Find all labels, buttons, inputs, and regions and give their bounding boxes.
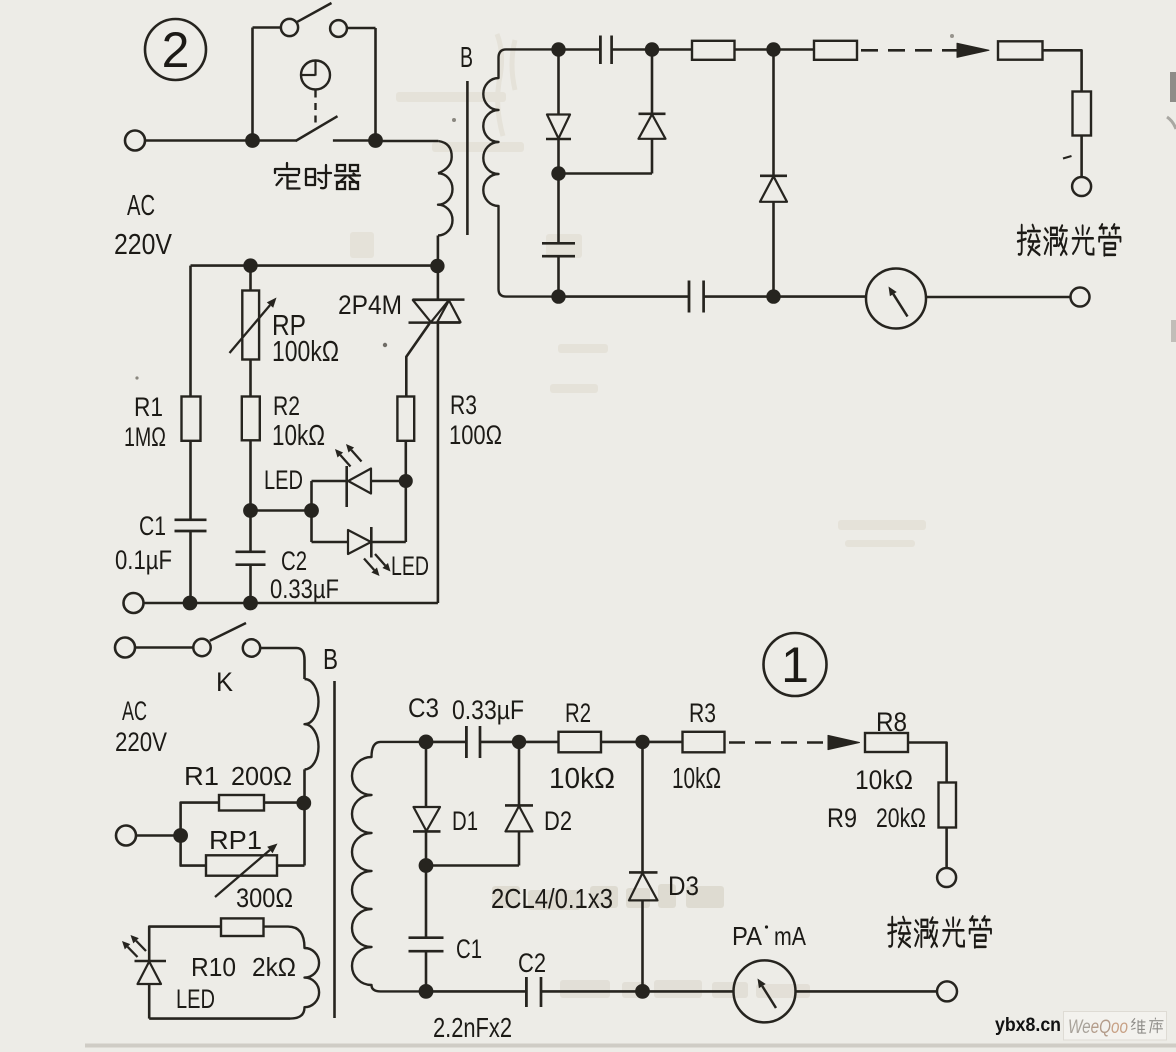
wire (945, 828, 948, 869)
wire (primary lower lead) (303, 769, 306, 865)
svg-text:220V: 220V (114, 229, 173, 261)
diode D3 (629, 749, 658, 991)
svg-text:0.33µF: 0.33µF (452, 695, 524, 725)
resistor R2 (10k) (242, 360, 260, 511)
switch K blade (210, 623, 246, 641)
switch K contact (193, 639, 210, 656)
triac 2P4M (409, 266, 465, 323)
ballast resistor (vertical) (1073, 92, 1092, 136)
bottom rail wire (fig2) (144, 602, 438, 605)
AC input terminal (fig1 lower) (116, 826, 136, 846)
resistor R3 (100) (397, 397, 414, 475)
wire (347, 27, 376, 30)
bottom rail wire (559, 295, 690, 298)
figure marker 1 (764, 633, 827, 696)
LED2 light arrows (364, 554, 391, 576)
timer switch contact (281, 19, 298, 36)
svg-text:2: 2 (162, 22, 190, 78)
potentiometer RP (100k) (230, 266, 277, 360)
resistor R1 (1M) (182, 266, 201, 520)
wire (251, 509, 312, 512)
resistor R9 20k (vertical) (939, 783, 957, 828)
switch K contact (243, 639, 260, 656)
svg-text:R9: R9 (827, 803, 857, 833)
capacitor C2 (236, 511, 266, 604)
junction (183, 596, 198, 611)
wire (1043, 50, 1082, 91)
watermark WeeQoo box (1064, 1012, 1167, 1041)
dashed wire (729, 741, 823, 744)
wire (triac main to bottom rail) (437, 323, 440, 603)
svg-text:10kΩ: 10kΩ (272, 420, 325, 452)
wire (908, 743, 947, 783)
wire (735, 48, 815, 51)
svg-text:PA: PA (732, 921, 763, 951)
diode (secondary rectifier B) (639, 56, 666, 174)
wire (519, 741, 559, 744)
AC input terminal (upper left) (125, 131, 145, 151)
svg-text:2.2nFx2: 2.2nFx2 (433, 1012, 512, 1043)
capacitor (top coupling) (600, 36, 611, 65)
transformer B secondary winding (fig1) (352, 742, 426, 992)
stray mark (1063, 156, 1072, 159)
label 接激光管 (upper) (1018, 224, 1121, 255)
svg-text:R10: R10 (191, 952, 236, 982)
svg-text:220V: 220V (115, 727, 167, 757)
meter (upper, laser current) (866, 269, 926, 329)
wire (253, 26, 281, 29)
LED 3 (pilot) (135, 961, 167, 1019)
junction (243, 596, 258, 611)
resistor R8 10k (865, 733, 908, 752)
wire (1080, 136, 1083, 178)
label 定时器 (275, 163, 360, 189)
capacitor (filter, upper) (542, 174, 575, 297)
wire (643, 741, 683, 744)
svg-text:R3: R3 (689, 698, 716, 728)
transformer B secondary winding (483, 49, 560, 296)
arrowhead (828, 735, 860, 749)
svg-text:R8: R8 (876, 707, 907, 737)
LED3 light arrows (122, 935, 146, 957)
junction (triac anode node) (430, 259, 444, 273)
dashed wire (861, 49, 957, 52)
junction (tap) (296, 796, 311, 811)
transformer B primary winding (438, 141, 453, 236)
svg-text:AC: AC (122, 696, 147, 726)
AC terminal (lower left of fig2) (124, 593, 144, 613)
svg-text:20kΩ: 20kΩ (876, 803, 926, 833)
svg-text:2kΩ: 2kΩ (252, 952, 296, 982)
resistor (top chain 2) (814, 41, 857, 60)
wire (149, 1017, 290, 1020)
junction (635, 735, 649, 749)
svg-text:R2: R2 (273, 391, 300, 421)
dashed mechanical link (314, 91, 316, 129)
wire (643, 990, 734, 993)
svg-text:0.1µF: 0.1µF (115, 545, 172, 575)
paper ghosts (not labelled components) (497, 34, 515, 136)
wire (374, 28, 377, 141)
watermark 维库 glyphs (1131, 1018, 1163, 1034)
svg-text:C1: C1 (139, 511, 166, 541)
resistor (top chain 1) (692, 41, 735, 60)
junction (304, 503, 319, 518)
junction (245, 133, 260, 148)
junction (551, 42, 565, 56)
wire (437, 236, 440, 267)
junction (419, 984, 434, 999)
svg-text:D3: D3 (668, 871, 699, 901)
svg-text:LED: LED (264, 465, 303, 495)
LED 1 (upper, points left) (312, 466, 400, 507)
svg-text:mA: mA (774, 921, 807, 951)
laser tube terminal (top -) (1071, 288, 1090, 307)
diode D2 (433, 749, 533, 866)
svg-text:2CL4/0.1x3: 2CL4/0.1x3 (491, 883, 613, 914)
junction (173, 828, 188, 843)
svg-text:10kΩ: 10kΩ (672, 763, 721, 795)
resistor (top chain 3) (998, 41, 1043, 59)
svg-text:B: B (460, 42, 473, 74)
svg-text:R1: R1 (134, 392, 163, 422)
svg-text:K: K (216, 667, 233, 697)
svg-text:100Ω: 100Ω (449, 420, 502, 450)
wire (333, 139, 376, 142)
wire (251, 28, 254, 141)
triac gate lead (406, 324, 429, 397)
svg-text:R3: R3 (450, 390, 477, 420)
capacitor C1 (fig1) (409, 866, 444, 992)
svg-text:2P4M: 2P4M (338, 290, 402, 320)
timer clock symbol (301, 61, 330, 90)
meter PA mA (734, 960, 796, 1022)
junction (551, 166, 565, 180)
svg-text:300Ω: 300Ω (236, 883, 293, 913)
svg-text:R1: R1 (184, 761, 219, 791)
svg-text:R2: R2 (565, 698, 591, 728)
wire (135, 646, 193, 649)
svg-text:WeeQoo: WeeQoo (1068, 1017, 1128, 1038)
svg-text:B: B (323, 644, 338, 676)
pilot lamp winding (264, 927, 320, 1019)
junction (766, 289, 780, 303)
wire (796, 990, 938, 993)
svg-text:200Ω: 200Ω (231, 761, 292, 791)
LED1 light arrows (335, 444, 362, 467)
resistor R10 2k (149, 918, 263, 961)
junction (645, 42, 659, 56)
junction (243, 503, 258, 518)
svg-text:D1: D1 (452, 806, 478, 836)
laser tube terminal (top +) (1072, 177, 1091, 196)
timer switch blade (297, 3, 331, 22)
junction (512, 735, 526, 749)
svg-text:C2: C2 (518, 948, 546, 978)
svg-text:1: 1 (781, 637, 809, 693)
capacitor C2 (fig1) (526, 977, 541, 1007)
diode (secondary rectifier A) (546, 56, 571, 167)
resistor R2 10k (fig1) (559, 732, 602, 753)
capacitor C3 0.33uF (466, 726, 480, 758)
junction (368, 133, 383, 148)
resistor R1 200 (fig1) (181, 795, 264, 836)
svg-text:RP1: RP1 (209, 825, 262, 855)
svg-text:LED: LED (391, 551, 429, 581)
svg-text:C1: C1 (456, 934, 482, 964)
wire (LED bracket) (310, 481, 313, 542)
svg-text:100kΩ: 100kΩ (272, 336, 339, 368)
junction (gate node) (399, 474, 413, 488)
wire (bottom rail fig1) (426, 990, 526, 993)
svg-text:C3: C3 (408, 693, 439, 723)
svg-text:1MΩ: 1MΩ (124, 422, 166, 452)
junction (419, 858, 434, 873)
wire (559, 48, 601, 51)
wire (926, 296, 1071, 299)
wire (541, 990, 636, 993)
junction (419, 735, 434, 750)
wire (612, 48, 692, 51)
svg-text:LED: LED (176, 984, 215, 1014)
wire (376, 140, 439, 143)
junction (551, 289, 565, 303)
svg-text:0.33µF: 0.33µF (270, 574, 339, 604)
svg-text:10kΩ: 10kΩ (855, 765, 913, 795)
wire (559, 172, 653, 175)
wire (426, 741, 466, 744)
junction (766, 42, 780, 56)
wire (left circuit top rail) (191, 264, 438, 267)
AC input terminal (fig1 upper) (115, 638, 135, 658)
laser tube terminal (fig1 -) (937, 981, 957, 1001)
potentiometer RP1 300 (181, 836, 305, 898)
capacitor (series output) (689, 281, 704, 313)
timer switch contact (330, 20, 347, 37)
wire (136, 834, 180, 837)
svg-text:D2: D2 (544, 806, 572, 836)
transformer B core (fig1) (333, 681, 336, 1018)
wire (601, 741, 636, 744)
svg-text:AC: AC (127, 190, 155, 222)
figure marker 2 (145, 19, 206, 80)
resistor R3 10k (fig1) (683, 732, 725, 753)
transformer B core (466, 81, 469, 235)
svg-text:ybx8.cn: ybx8.cn (995, 1015, 1061, 1036)
svg-text:10kΩ: 10kΩ (549, 763, 615, 795)
junction (243, 258, 257, 272)
label 接激光管 (lower) (888, 916, 991, 947)
junction (635, 984, 650, 999)
wire (145, 139, 296, 142)
laser tube terminal (fig1 +) (937, 868, 956, 887)
diode (clamp) (760, 56, 787, 290)
svg-text:C2: C2 (281, 546, 307, 576)
wire (704, 295, 867, 298)
LED 2 (lower, points right) (312, 487, 406, 558)
wire (480, 741, 512, 744)
wire (260, 648, 304, 679)
transformer B primary winding (fig1) (305, 679, 319, 769)
diode D1 (413, 749, 441, 859)
wire (264, 801, 304, 804)
capacitor C1 (175, 520, 207, 603)
timer contact blade (296, 116, 338, 141)
arrowhead (957, 43, 989, 57)
